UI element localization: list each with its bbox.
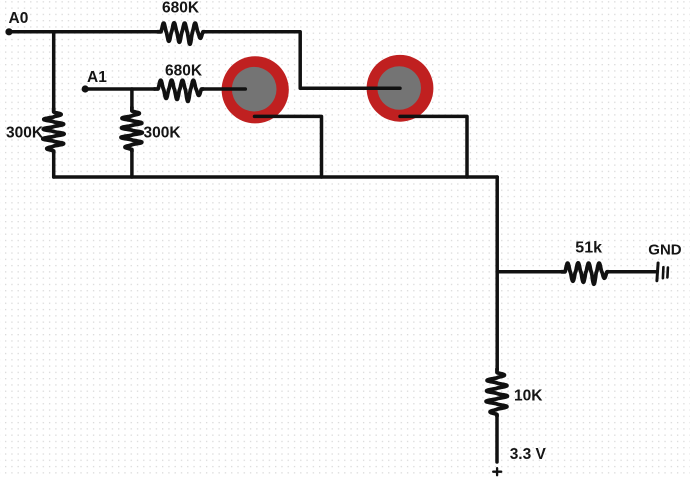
wire A1 lead [85, 87, 154, 91]
node A1 terminal dot [82, 85, 89, 92]
svg-text:300K: 300K [6, 125, 44, 142]
resistor R2 300K [43, 109, 64, 153]
svg-text:A0: A0 [9, 10, 29, 27]
svg-text:680K: 680K [165, 62, 203, 79]
resistor R5 10K [486, 369, 507, 416]
piezo sensor P1 (left red disc) [222, 56, 289, 123]
wire 51k branch left [497, 270, 561, 274]
wire A0 lead [9, 30, 158, 34]
wire P1 bottom tab [255, 116, 322, 177]
wire R4 bottom to bus [130, 151, 134, 177]
wire A0 branch down [52, 32, 56, 109]
plus sign at 3.3V terminal [493, 468, 501, 475]
svg-text:51k: 51k [575, 240, 602, 257]
node A0 terminal dot [5, 28, 12, 35]
svg-text:A1: A1 [87, 69, 107, 86]
svg-text:GND: GND [648, 242, 682, 259]
svg-text:680K: 680K [162, 0, 200, 16]
wire to 3.3V [495, 416, 499, 463]
wire right vertical upper [495, 177, 499, 370]
resistor R6 51k [562, 263, 609, 284]
wire bottom bus [54, 175, 498, 179]
wire R1 to P2 center (node to piezo 2) [205, 32, 401, 89]
resistor R4 300K [121, 108, 142, 152]
ground symbol [657, 263, 668, 281]
piezo sensor P2 (right red disc) [367, 55, 434, 122]
resistor R3 680K [155, 80, 204, 101]
svg-text:10K: 10K [514, 388, 543, 405]
wire 51k to GND [609, 270, 656, 274]
wire A1 branch down [130, 89, 134, 108]
wire R2 bottom to bus [52, 153, 56, 178]
svg-text:3.3 V: 3.3 V [510, 446, 547, 463]
wire R3 to P1 center [203, 87, 245, 91]
wire P2 bottom tab [400, 116, 467, 177]
svg-text:300K: 300K [144, 125, 182, 142]
resistor R1 680K [158, 23, 205, 44]
